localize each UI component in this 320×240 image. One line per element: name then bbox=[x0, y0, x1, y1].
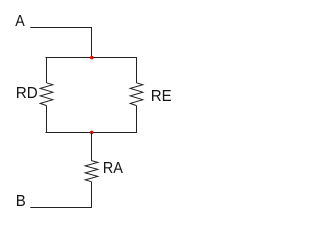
wire top bus bbox=[46, 57, 138, 59]
junction dot bottom (red) bbox=[90, 131, 94, 135]
zigzag body bbox=[85, 161, 98, 182]
zigzag body bbox=[40, 83, 53, 106]
wire from node A horizontal bbox=[30, 27, 92, 29]
label RE bbox=[152, 90, 171, 101]
resistor RD bbox=[40, 57, 53, 133]
resistor RE bbox=[130, 57, 143, 133]
resistor RA bbox=[85, 132, 98, 208]
junction dot top (red) bbox=[90, 56, 94, 60]
wire from node B horizontal bbox=[30, 207, 92, 209]
wire bottom bus bbox=[46, 132, 138, 134]
wire lower lead bbox=[46, 106, 48, 133]
zigzag body bbox=[130, 83, 143, 106]
node B label bbox=[17, 195, 25, 206]
wire upper lead bbox=[136, 57, 138, 83]
wire upper lead bbox=[46, 57, 48, 83]
label RA bbox=[104, 162, 123, 173]
wire upper lead bbox=[91, 132, 93, 161]
wire lower lead bbox=[91, 182, 93, 208]
node A label bbox=[15, 15, 24, 26]
label RD bbox=[17, 87, 37, 98]
wire from node A vertical down to top bus bbox=[91, 27, 93, 58]
wire lower lead bbox=[136, 106, 138, 133]
